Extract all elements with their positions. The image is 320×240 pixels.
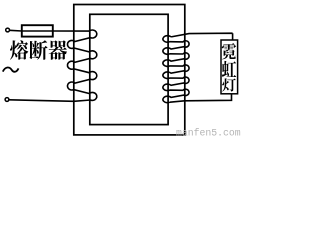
wire: primary winding bottom to bottom-left terminal <box>9 100 90 102</box>
label 霓虹灯 (neon lamp) char 2 <box>222 61 236 77</box>
label 霓虹灯 (neon lamp) char 3 <box>222 78 236 91</box>
label 熔断器 (fuse) char 2 <box>29 40 47 60</box>
terminal node, top-left AC input <box>6 28 10 32</box>
neon lamp box outline <box>221 40 238 94</box>
transformer T1 iron core, outer rectangle <box>74 5 185 135</box>
wire: top-left terminal through fuse to primary winding <box>9 29 89 32</box>
svg-text:manfen5.com: manfen5.com <box>176 127 241 138</box>
AC source symbol ~ <box>3 67 19 71</box>
fuse FU (rectangle with wire through) <box>22 25 53 36</box>
transformer T1 primary winding (left limb, 4 turns) <box>67 30 96 100</box>
label 熔断器 (fuse) char 3 <box>49 40 67 60</box>
transformer T1 iron core, inner rectangle <box>90 14 168 124</box>
transformer T1 secondary winding (right limb, 6 turns) <box>163 36 189 103</box>
terminal node, bottom-left AC input <box>5 98 9 102</box>
wire: secondary winding top to neon lamp box <box>171 33 233 40</box>
label 熔断器 (fuse) char 1 <box>10 40 28 59</box>
wire: secondary winding bottom to neon lamp box <box>170 94 232 102</box>
label 霓虹灯 (neon lamp) char 1 <box>222 43 236 59</box>
